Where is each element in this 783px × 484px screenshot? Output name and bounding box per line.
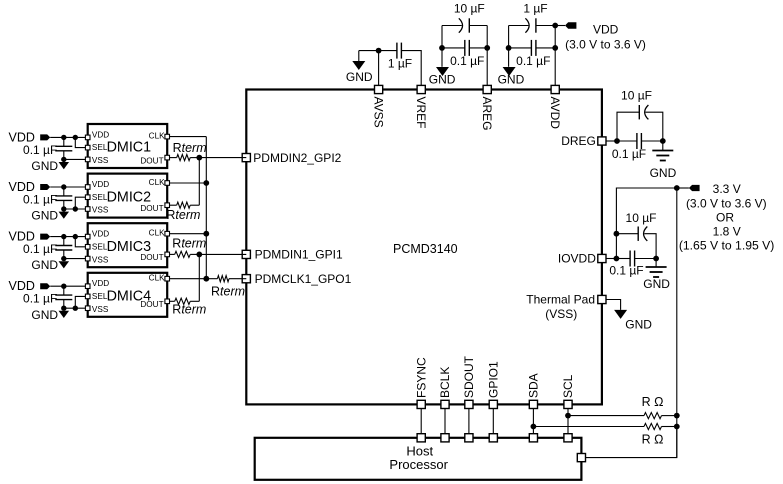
resistor Rterm (PDMCLK1) (206, 276, 246, 282)
svg-text:BCLK: BCLK (438, 367, 452, 398)
svg-text:GND: GND (625, 318, 652, 332)
pin VSS (DMIC3) (85, 256, 90, 261)
wire SDOUT to host (468, 404, 470, 437)
svg-text:DOUT: DOUT (140, 204, 163, 213)
svg-text:GPIO1: GPIO1 (487, 361, 501, 398)
pin CLK (DMIC1) (165, 134, 170, 139)
junction rail SCL (674, 413, 680, 419)
svg-text:VDD: VDD (92, 180, 109, 189)
wire VDD feed (DMIC3) (50, 236, 87, 238)
capacitor 10uF (IOVDD) (616, 211, 656, 258)
label VDD (3.0 V to 3.6 V) (565, 22, 646, 51)
wire DOUT riser DMIC2 (198, 158, 200, 206)
svg-text:AVDD: AVDD (548, 97, 562, 130)
wire rail to host supply pin (581, 427, 676, 458)
svg-text:1 µF: 1 µF (388, 56, 412, 70)
junction SEL-VSS (DMIC2) (73, 206, 78, 211)
pin SEL (DMIC2) (85, 195, 90, 200)
pin PDMDIN1_GPI1 (242, 248, 343, 262)
svg-text:VSS: VSS (92, 156, 109, 165)
junction SCL tap (565, 413, 571, 419)
junction VSS node (DMIC2) (61, 206, 66, 211)
IC U1 PCMD3140 outline (246, 90, 602, 405)
svg-text:CLK: CLK (149, 178, 165, 187)
svg-text:VDD: VDD (593, 22, 619, 36)
ground GND (AVDD) (498, 67, 525, 87)
svg-text:0.1 µF: 0.1 µF (23, 292, 57, 306)
wire SDA to host (532, 404, 534, 437)
ground GND (thermal pad) (614, 310, 652, 332)
svg-text:Thermal Pad: Thermal Pad (526, 293, 595, 307)
pin SEL (DMIC3) (85, 245, 90, 250)
svg-text:DMIC1: DMIC1 (107, 140, 152, 156)
wire AVDD left branch (508, 26, 510, 67)
svg-text:(1.65 V to 1.95 V): (1.65 V to 1.95 V) (679, 239, 775, 253)
wire DOUT riser DMIC4 (198, 254, 200, 301)
svg-text:0.1 µF: 0.1 µF (516, 54, 550, 68)
pin GPIO1 (487, 361, 501, 409)
label Rterm (DMIC3) (172, 237, 206, 251)
svg-text:Processor: Processor (389, 457, 448, 472)
svg-text:OR: OR (716, 211, 734, 225)
svg-text:DOUT: DOUT (140, 300, 163, 309)
wire AVSS pin to bypass node (378, 51, 380, 90)
junction CLK bus DMIC2 (203, 180, 209, 186)
svg-text:Rterm: Rterm (211, 285, 245, 299)
svg-text:VDD: VDD (92, 279, 109, 288)
host pin BCLK (441, 434, 449, 442)
svg-text:PDMDIN1_GPI1: PDMDIN1_GPI1 (255, 248, 343, 262)
pin SDA (527, 373, 541, 408)
pin DOUT (DMIC2) (165, 203, 170, 208)
pin VDD (DMIC1) (85, 135, 90, 140)
pin AVSS (371, 85, 385, 127)
wire VDD feed (DMIC2) (50, 186, 87, 188)
junction DREG right (660, 138, 666, 144)
svg-text:DMIC2: DMIC2 (107, 189, 152, 205)
pin SDOUT (462, 355, 476, 408)
svg-text:1.8 V: 1.8 V (713, 225, 741, 239)
junction SEL-VDD (DMIC3) (73, 234, 78, 239)
svg-text:GND: GND (31, 308, 58, 322)
svg-text:(3.0 V to 3.6 V): (3.0 V to 3.6 V) (686, 196, 767, 210)
capacitor 0.1uF (IOVDD) (609, 251, 656, 278)
capacitor 10uF (AREG) (442, 1, 487, 32)
svg-text:SEL: SEL (92, 242, 108, 251)
junction AVSS node (376, 48, 382, 54)
wire AREG left branch (441, 26, 443, 67)
svg-text:GND: GND (643, 277, 670, 291)
pin CLK (DMIC2) (165, 181, 170, 186)
svg-text:VREF: VREF (414, 97, 428, 129)
svg-text:0.1 µF: 0.1 µF (612, 147, 646, 161)
svg-text:AVSS: AVSS (371, 97, 385, 128)
label Rterm (DMIC2) (166, 208, 200, 222)
svg-text:PDMDIN2_GPI2: PDMDIN2_GPI2 (253, 151, 341, 165)
ground GND (DMIC1) (31, 159, 69, 173)
svg-text:(VSS): (VSS) (545, 307, 577, 321)
svg-text:10 µF: 10 µF (626, 211, 657, 225)
pin Thermal Pad (VSS) (526, 293, 606, 321)
svg-text:GND: GND (346, 70, 373, 84)
wire VDD feed (DMIC4) (50, 285, 87, 287)
wire CLK DMIC4 to bus (167, 278, 206, 280)
resistor Rterm (DMIC3 DOUT) (167, 251, 199, 257)
svg-text:0.1 µF: 0.1 µF (609, 263, 643, 277)
capacitor 0.1uF (AVDD) (509, 40, 556, 68)
svg-text:0.1 µF: 0.1 µF (23, 193, 57, 207)
resistor Rterm (DMIC4 DOUT) (167, 298, 199, 304)
svg-text:GND: GND (31, 209, 58, 223)
wire VSS to GND (DMIC2) (64, 208, 88, 210)
host pin SDA (529, 434, 537, 442)
junction VDD cap tap (DMIC1) (61, 135, 66, 140)
capacitor 1uF (AVDD) (509, 1, 556, 32)
svg-text:SDA: SDA (527, 373, 541, 398)
svg-text:AREG: AREG (480, 97, 494, 131)
junction CLK bus DMIC3 (203, 231, 209, 237)
ground GND (DMIC2) (31, 209, 69, 223)
ground GND (DMIC3) (31, 258, 69, 272)
svg-text:10 µF: 10 µF (621, 89, 652, 103)
pin DOUT (DMIC4) (165, 299, 170, 304)
svg-text:SEL: SEL (92, 143, 108, 152)
capacitor 0.1uF (AREG) (442, 40, 487, 68)
ground GND earth (DREG) (650, 141, 677, 180)
capacitor 1uF (AVSS-VREF) (379, 43, 413, 71)
junction VDD cap tap (DMIC4) (61, 284, 66, 289)
wire SCL to host (567, 404, 569, 437)
junction 3.3V rail tap (674, 185, 680, 191)
junction PDMDIN1 net (196, 252, 202, 258)
wire VDD feed (DMIC1) (50, 136, 87, 138)
ground GND (AREG) (429, 67, 456, 87)
pin DOUT (DMIC3) (165, 252, 170, 257)
svg-text:DOUT: DOUT (140, 156, 163, 165)
host pin GPIO1 (489, 434, 497, 442)
svg-text:Rterm: Rterm (166, 208, 200, 222)
wire AVDD row to VDD terminal (555, 25, 565, 27)
wire CLK DMIC1 to bus (167, 136, 206, 138)
svg-text:10 µF: 10 µF (454, 1, 485, 15)
wire thermal pad to GND (602, 300, 621, 310)
pin PDMDIN2_GPI2 (242, 151, 341, 165)
svg-text:DREG: DREG (561, 134, 596, 148)
wire SEL tied to GND (DMIC2) (75, 197, 87, 209)
terminal VDD (DMIC1) (8, 130, 50, 144)
terminal VDD (DMIC2) (8, 180, 50, 194)
microphone DMIC3 block (88, 223, 168, 267)
svg-text:PCMD3140: PCMD3140 (393, 242, 458, 256)
terminal VDD supply (565, 22, 576, 28)
svg-text:3.3 V: 3.3 V (713, 182, 741, 196)
resistor R ohm (SCL pullup) (644, 413, 677, 419)
label Rterm (DMIC1) (173, 141, 207, 155)
host pin SDOUT (465, 434, 473, 442)
capacitor 10uF (DREG) (617, 89, 663, 141)
svg-text:R Ω: R Ω (642, 395, 664, 409)
label R ohm (SDA) (642, 432, 664, 446)
capacitor 0.1uF (DMIC1) (23, 137, 72, 159)
junction IOVDD 10uF tap (614, 231, 620, 237)
svg-text:PDMCLK1_GPO1: PDMCLK1_GPO1 (255, 272, 352, 286)
pin SEL (DMIC1) (85, 145, 90, 150)
pin VDD (DMIC3) (85, 234, 90, 239)
junction AREG left 0.1uF (439, 45, 445, 51)
label 3.3V / 1.8V supply range (679, 182, 775, 253)
host pin supply (577, 454, 585, 462)
label PCMD3140 (393, 242, 458, 256)
wire SEL tied to GND (DMIC4) (75, 296, 87, 308)
pin VSS (DMIC4) (85, 306, 90, 311)
wire VREF pin to 1uF cap (401, 51, 421, 90)
wire SEL tied to VDD (DMIC1) (75, 137, 87, 147)
pin IOVDD (558, 252, 606, 266)
svg-text:Host: Host (406, 443, 433, 458)
svg-text:0.1 µF: 0.1 µF (23, 143, 57, 157)
junction SEL-VSS (DMIC4) (73, 306, 78, 311)
ground GND (DMIC4) (31, 308, 69, 322)
pin VSS (DMIC1) (85, 157, 90, 162)
pin SEL (DMIC4) (85, 294, 90, 299)
microphone DMIC4 block (88, 273, 168, 317)
wire DREG pin to node (602, 140, 617, 142)
wire CLK DMIC2 to bus (167, 182, 206, 184)
wire GPIO1 to host (492, 404, 494, 437)
junction CLK bus DMIC4 (203, 276, 209, 282)
wire rail to 3.3V terminal (677, 187, 689, 189)
host pin SCL (564, 434, 572, 442)
resistor Rterm (DMIC1 DOUT) (167, 155, 199, 161)
junction DREG node (614, 138, 620, 144)
capacitor 0.1uF (DMIC2) (23, 187, 72, 209)
junction rail SDA (674, 424, 680, 430)
resistor R ohm (SDA pullup) (644, 423, 677, 429)
pin DREG (561, 134, 606, 148)
svg-text:GND: GND (31, 159, 58, 173)
terminal VDD (DMIC3) (8, 230, 50, 244)
wire PDMDIN1 net (199, 253, 246, 255)
pin VREF (414, 85, 428, 128)
svg-text:CLK: CLK (149, 132, 165, 141)
pin SCL (561, 374, 575, 408)
microphone DMIC2 block (88, 174, 168, 218)
wire AVSS node left to GND stub (359, 51, 379, 61)
host processor block (255, 438, 582, 480)
junction VSS node (DMIC3) (61, 256, 66, 261)
svg-text:SCL: SCL (561, 374, 575, 398)
svg-text:Rterm: Rterm (173, 141, 207, 155)
junction VDD cap tap (DMIC2) (61, 184, 66, 189)
pin VDD (DMIC2) (85, 185, 90, 190)
wire CLK DMIC3 to bus (167, 233, 206, 235)
pin AVDD (548, 85, 562, 129)
label Rterm (PDMCLK1) (211, 285, 245, 299)
svg-text:SDOUT: SDOUT (462, 355, 476, 398)
pin CLK (DMIC4) (165, 276, 170, 281)
capacitor 0.1uF (DMIC4) (23, 286, 72, 308)
pin VDD (DMIC4) (85, 284, 90, 289)
junction AVDD right 0.1uF (552, 45, 558, 51)
svg-text:GND: GND (498, 73, 525, 87)
pin AREG (480, 85, 494, 130)
wire AREG pin riser (486, 26, 488, 90)
svg-text:CLK: CLK (149, 274, 165, 283)
wire AVDD pin riser (554, 26, 556, 90)
svg-text:0.1 µF: 0.1 µF (23, 242, 57, 256)
svg-text:SEL: SEL (92, 292, 108, 301)
junction VSS node (DMIC4) (61, 306, 66, 311)
svg-text:DOUT: DOUT (140, 253, 163, 262)
wire VSS to GND (DMIC4) (64, 307, 88, 309)
label R ohm (SCL) (642, 395, 664, 409)
wire IOVDD riser to 3.3V rail (616, 188, 676, 259)
svg-text:1 µF: 1 µF (523, 1, 547, 15)
svg-text:Rterm: Rterm (172, 237, 206, 251)
pin PDMCLK1_GPO1 (242, 272, 351, 286)
capacitor 0.1uF (DMIC3) (23, 237, 72, 259)
svg-text:SEL: SEL (92, 193, 108, 202)
svg-text:0.1 µF: 0.1 µF (450, 54, 484, 68)
label Rterm (DMIC4) (172, 303, 206, 317)
wire CLK bus vertical (205, 137, 207, 279)
capacitor 0.1uF (DREG) (612, 133, 663, 161)
terminal VDD (DMIC4) (8, 279, 50, 293)
wire SCL pullup (568, 415, 644, 417)
svg-text:R Ω: R Ω (642, 432, 664, 446)
junction PDMDIN2 net (196, 155, 202, 161)
svg-text:VSS: VSS (92, 206, 109, 215)
svg-text:Rterm: Rterm (172, 303, 206, 317)
svg-text:(3.0 V to 3.6 V): (3.0 V to 3.6 V) (565, 37, 646, 51)
junction VDD cap tap (DMIC3) (61, 234, 66, 239)
wire VSS to GND (DMIC3) (64, 258, 88, 260)
ground GND earth (IOVDD) (643, 259, 670, 292)
pin CLK (DMIC3) (165, 231, 170, 236)
junction AVDD top row (552, 23, 558, 29)
svg-text:IOVDD: IOVDD (558, 252, 596, 266)
svg-text:CLK: CLK (149, 229, 165, 238)
junction SDA tap (531, 424, 537, 430)
junction SEL-VDD (DMIC1) (73, 135, 78, 140)
junction AVDD left 0.1uF (506, 45, 512, 51)
wire PDMDIN2 net (199, 157, 246, 159)
junction AREG right 0.1uF (484, 45, 490, 51)
junction VSS node (DMIC1) (61, 157, 66, 162)
svg-text:VDD: VDD (92, 230, 109, 239)
svg-text:GND: GND (650, 166, 677, 180)
junction IOVDD node (614, 256, 620, 262)
junction IOVDD right (653, 256, 659, 262)
pin FSYNC (414, 357, 428, 409)
svg-text:VDD: VDD (92, 130, 109, 139)
terminal 3.3V supply (689, 185, 700, 191)
wire SDA pullup (533, 426, 644, 428)
pin BCLK (438, 367, 452, 409)
svg-text:VSS: VSS (92, 305, 109, 314)
wire IOVDD pin to node (602, 258, 617, 260)
svg-text:FSYNC: FSYNC (414, 357, 428, 398)
wire VSS to GND (DMIC1) (64, 158, 88, 160)
wire FSYNC to host (420, 404, 422, 437)
pin VSS (DMIC2) (85, 207, 90, 212)
host pin FSYNC (417, 434, 425, 442)
svg-text:GND: GND (429, 73, 456, 87)
wire SEL tied to VDD (DMIC3) (75, 237, 87, 247)
wire BCLK to host (444, 404, 446, 437)
microphone DMIC1 block (88, 124, 168, 168)
wire 3.3V rail vertical (676, 188, 678, 458)
svg-text:VSS: VSS (92, 255, 109, 264)
svg-text:GND: GND (31, 258, 58, 272)
pin DOUT (DMIC1) (165, 155, 170, 160)
resistor Rterm (DMIC2 DOUT) (167, 202, 199, 208)
ground GND (AVSS) (346, 61, 373, 84)
